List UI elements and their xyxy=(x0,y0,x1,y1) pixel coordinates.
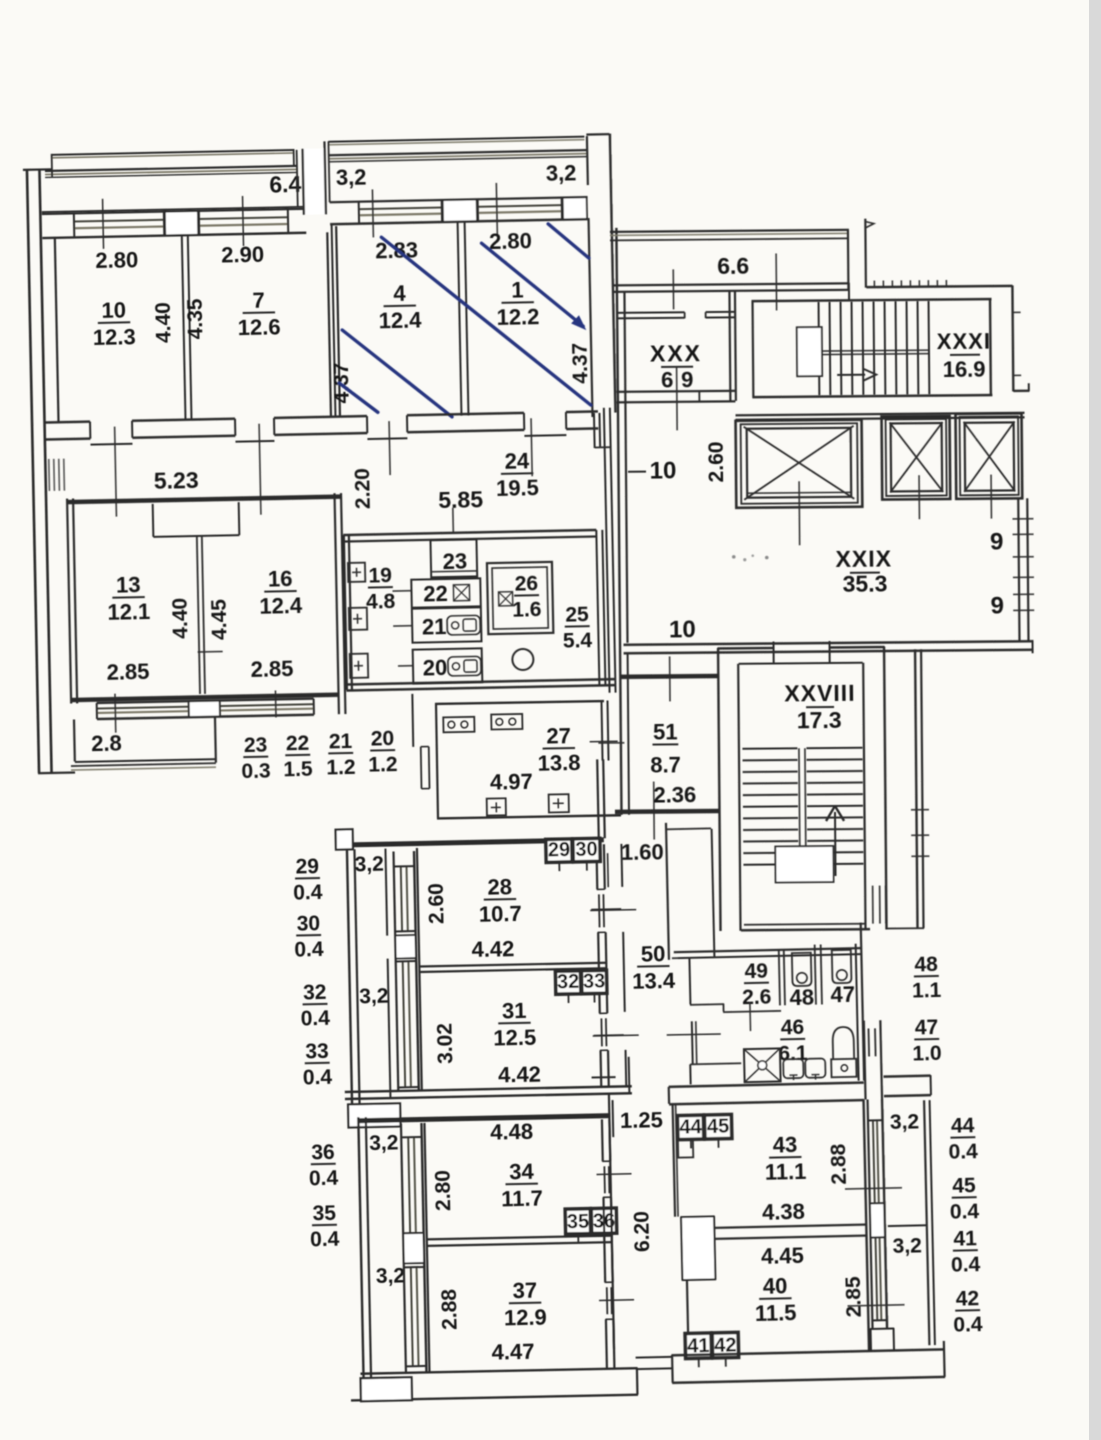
svg-text:3,2: 3,2 xyxy=(359,985,389,1009)
rooms 43/40 right wall xyxy=(864,1100,869,1351)
room 26 label xyxy=(514,594,539,596)
dim tick 2.90 room7 xyxy=(243,196,244,246)
room 26 box double border xyxy=(487,562,553,634)
room 46 label xyxy=(780,1038,805,1041)
dim tick under 5.85 xyxy=(452,508,455,533)
label 29/0.4 xyxy=(295,877,320,879)
room 16 right wall xyxy=(335,493,339,714)
hatched wall line to right corner xyxy=(866,286,1012,287)
stairwell XXVIII right walls xyxy=(863,663,865,930)
left balcony strip walls lower xyxy=(358,1117,363,1379)
svg-text:47: 47 xyxy=(830,982,855,1008)
svg-text:0.4: 0.4 xyxy=(950,1200,980,1224)
label 44/0.4 xyxy=(950,1136,975,1139)
elevator row top band xyxy=(736,413,1025,416)
wall between rooms 34 and 37 xyxy=(427,1236,613,1240)
wall between rooms 13 and 16 xyxy=(197,536,200,694)
left outer wall of building xyxy=(27,169,39,773)
balcony 6.6 bottom wall xyxy=(612,283,849,285)
room 51 label xyxy=(652,743,678,745)
svg-text:51: 51 xyxy=(653,719,678,744)
pier between balconies xyxy=(303,148,326,214)
svg-text:7: 7 xyxy=(252,288,265,313)
svg-text:1.1: 1.1 xyxy=(912,979,942,1003)
label 33/0.4 xyxy=(305,1062,330,1064)
svg-text:2.85: 2.85 xyxy=(250,656,293,682)
svg-text:27: 27 xyxy=(546,723,571,748)
svg-text:2.36: 2.36 xyxy=(653,782,696,807)
wall between rooms 43 and 40 xyxy=(714,1225,867,1228)
svg-text:2.88: 2.88 xyxy=(827,1143,851,1185)
door band to balcony 43 xyxy=(864,1021,866,1100)
label 30/0.4 xyxy=(296,934,321,936)
svg-text:3,2: 3,2 xyxy=(354,853,384,877)
label 41/0.4 xyxy=(953,1249,978,1252)
stair XXXI walk arrow xyxy=(837,374,865,376)
svg-text:48: 48 xyxy=(789,985,814,1011)
rooms 34/37 right wall with openings xyxy=(601,1119,604,1161)
svg-text:2.85: 2.85 xyxy=(106,659,149,685)
corridor 27 outline xyxy=(435,701,604,704)
stair XXVIII lower landing xyxy=(775,846,833,883)
label 36/0.4 xyxy=(311,1163,336,1165)
bottom wall rooms 13/16 xyxy=(72,695,339,700)
basin 2 room 46 xyxy=(805,1058,825,1077)
label 48/1.1 xyxy=(914,975,939,978)
svg-text:25: 25 xyxy=(565,603,589,626)
window ticks right wall 28 xyxy=(591,908,621,911)
svg-text:11.5: 11.5 xyxy=(755,1300,797,1326)
balcony rail 6.6 xyxy=(610,230,849,232)
svg-text:9: 9 xyxy=(990,592,1004,619)
dim tick below elevator 1 xyxy=(798,481,801,545)
room 43 left wall xyxy=(673,1105,675,1217)
svg-text:2.88: 2.88 xyxy=(438,1288,462,1330)
svg-text:4.42: 4.42 xyxy=(498,1062,541,1088)
black boxes 44 45 xyxy=(677,1115,704,1140)
svg-text:23: 23 xyxy=(244,734,268,757)
rooms 13/16 left wall xyxy=(67,499,71,704)
elevator shaft 2 xyxy=(882,416,951,500)
dim tick below room 4 door xyxy=(389,421,390,475)
scanner edge strip right xyxy=(1089,0,1101,1440)
svg-text:5.23: 5.23 xyxy=(154,467,199,494)
svg-text:3,2: 3,2 xyxy=(890,1110,920,1134)
stair XXXI middle rail xyxy=(822,349,929,352)
svg-text:10.7: 10.7 xyxy=(479,901,522,927)
dim tick room 51 xyxy=(669,656,671,701)
svg-text:11.1: 11.1 xyxy=(765,1159,807,1185)
svg-text:16.9: 16.9 xyxy=(943,357,986,382)
svg-text:26: 26 xyxy=(514,572,538,595)
svg-text:21: 21 xyxy=(329,730,353,753)
thick wall band above room 43 xyxy=(669,1083,864,1087)
dim tick below elevator 2 xyxy=(918,475,920,519)
svg-text:3,2: 3,2 xyxy=(892,1234,922,1258)
corridor 27 label xyxy=(543,747,575,750)
svg-text:2.20: 2.20 xyxy=(351,468,375,509)
bath block right wall xyxy=(856,944,859,1081)
dim tick 2.85 right xyxy=(274,690,277,717)
svg-text:50: 50 xyxy=(641,941,666,966)
balcony floor line left xyxy=(42,207,304,212)
door jamb tick near 1.60 xyxy=(607,853,610,887)
svg-text:1.25: 1.25 xyxy=(620,1107,663,1133)
room 25 label xyxy=(565,625,590,627)
svg-text:4.35: 4.35 xyxy=(184,298,208,340)
window band below balcony 6.4 xyxy=(42,209,306,214)
room 46 left wall xyxy=(691,1021,694,1064)
right corridor strip outer wall xyxy=(915,649,917,928)
svg-text:12.9: 12.9 xyxy=(504,1305,547,1331)
balcony notch above bottom wall xyxy=(870,1328,872,1350)
room 4 left wall xyxy=(332,224,336,416)
top wall of room 34 block xyxy=(358,1116,610,1121)
room 10 left wall xyxy=(55,238,59,422)
dim tick 6.6 right xyxy=(775,253,777,310)
svg-text:30: 30 xyxy=(297,912,321,935)
corridor 50 left wall upper segment xyxy=(597,759,599,838)
svg-text:6.6: 6.6 xyxy=(717,253,749,279)
double lines right of stair bottom xyxy=(872,886,874,924)
svg-text:28: 28 xyxy=(487,874,512,899)
svg-text:4.40: 4.40 xyxy=(169,598,193,639)
labels 23/0.3 22/1.5 21/1.2 20/1.2 xyxy=(243,756,268,758)
room XXX right wall xyxy=(728,291,731,401)
stair XXXI centre landing box xyxy=(797,327,822,376)
bathtub symbol room 21 xyxy=(447,615,480,635)
svg-text:12.1: 12.1 xyxy=(107,599,150,625)
room 40 left wall xyxy=(687,1280,689,1354)
svg-text:33: 33 xyxy=(305,1040,329,1063)
right outer corner wall xyxy=(1011,285,1014,391)
bottom outer wall left wing xyxy=(360,1368,637,1374)
svg-text:23: 23 xyxy=(442,549,467,574)
dim tick below 49 xyxy=(749,1002,752,1031)
corridor 50 label xyxy=(637,965,669,968)
label 32/0.4 xyxy=(303,1003,328,1005)
svg-text:2.80: 2.80 xyxy=(489,228,532,254)
svg-text:1.0: 1.0 xyxy=(912,1042,942,1066)
svg-text:4.97: 4.97 xyxy=(490,769,533,795)
dim tick left of 51 xyxy=(598,742,624,744)
blue pen stroke room 1 with arrowhead xyxy=(482,241,584,328)
svg-text:45: 45 xyxy=(707,1116,730,1138)
room 4 label xyxy=(384,305,416,308)
vent box 3 with + xyxy=(350,654,368,678)
thin wall line with flag top right xyxy=(864,219,867,288)
room 49 walls xyxy=(674,948,861,952)
svg-text:8.7: 8.7 xyxy=(650,752,681,777)
balcony divider 44-45 / 41-42 xyxy=(888,1224,927,1227)
hall right wall with 9-windows xyxy=(1018,498,1019,640)
junction lines between wings xyxy=(636,1356,672,1359)
closet notch between 13 and 16 xyxy=(152,504,155,537)
svg-text:29: 29 xyxy=(295,855,319,878)
plus box 1 corridor 27 xyxy=(487,798,506,815)
svg-text:2.60: 2.60 xyxy=(425,883,449,924)
top wall of room 28 block xyxy=(336,840,604,845)
room XXX top wall with door xyxy=(617,311,685,314)
shower tray room 46 xyxy=(744,1048,781,1082)
room 49 label xyxy=(744,982,769,985)
svg-text:1.2: 1.2 xyxy=(326,756,356,780)
window left of corridor 27 xyxy=(420,747,423,789)
elevator shaft 1 large xyxy=(736,420,863,508)
dim tick below elevator 3 xyxy=(990,475,992,519)
svg-text:12.6: 12.6 xyxy=(237,314,280,340)
svg-text:31: 31 xyxy=(502,998,527,1023)
label 47/1.0 xyxy=(914,1038,939,1041)
smudge dots xyxy=(732,555,736,559)
blue pen stroke room 4 corner xyxy=(339,382,378,413)
svg-text:2.6: 2.6 xyxy=(742,986,772,1010)
elevator shaft 3 xyxy=(956,413,1023,499)
blue pen stroke room 1 top right xyxy=(548,223,589,259)
right wing left wall lower part xyxy=(620,643,622,815)
svg-text:41: 41 xyxy=(953,1227,977,1251)
svg-text:2.8: 2.8 xyxy=(91,731,122,757)
svg-text:4.45: 4.45 xyxy=(208,599,232,641)
balcony strip right outer wall xyxy=(924,1100,929,1345)
svg-text:4.45: 4.45 xyxy=(761,1243,804,1269)
svg-text:19: 19 xyxy=(368,564,392,587)
svg-text:29: 29 xyxy=(548,839,571,861)
black boxes 29 30 xyxy=(546,839,572,863)
svg-text:49: 49 xyxy=(744,960,768,984)
bottom wall of rooms 10/7/4/1 with door openings xyxy=(45,420,90,423)
svg-text:5.85: 5.85 xyxy=(438,486,483,513)
svg-text:45: 45 xyxy=(952,1174,976,1198)
svg-text:35.3: 35.3 xyxy=(842,571,887,597)
svg-text:33: 33 xyxy=(583,970,606,992)
svg-text:21: 21 xyxy=(422,614,447,639)
fan symbol room 26 xyxy=(499,592,513,606)
top wall rooms 13/16 xyxy=(68,497,342,502)
svg-text:32: 32 xyxy=(303,981,327,1004)
svg-text:4.42: 4.42 xyxy=(471,936,514,962)
vent box 1 with + xyxy=(348,563,365,582)
blue pen stroke room 4 middle xyxy=(342,328,452,419)
glazing in wall openings 34/37 xyxy=(603,1166,606,1193)
rooms 34/37 left wall xyxy=(424,1123,429,1372)
dim cross on divider wall xyxy=(198,651,223,654)
bottom-left corner block xyxy=(361,1377,412,1401)
svg-text:20: 20 xyxy=(371,727,395,750)
label 42/0.4 xyxy=(955,1309,980,1312)
label 10 upper with dash xyxy=(628,471,646,473)
window band below balcony 3,2 xyxy=(330,197,588,202)
svg-text:1.6: 1.6 xyxy=(512,598,542,622)
svg-text:30: 30 xyxy=(575,838,598,860)
svg-text:16: 16 xyxy=(268,566,293,591)
svg-text:3.02: 3.02 xyxy=(433,1023,457,1064)
balcony rail top-left (6.4) xyxy=(52,150,294,155)
dim tick 2.85 left xyxy=(114,694,117,733)
svg-text:11.7: 11.7 xyxy=(501,1186,543,1212)
svg-text:4.38: 4.38 xyxy=(762,1199,805,1225)
glazing in wall openings 28/31 xyxy=(598,894,601,927)
svg-text:13: 13 xyxy=(116,572,141,597)
balcony rail top-right (3,2 / 3,2) xyxy=(328,137,584,142)
svg-text:47: 47 xyxy=(915,1016,939,1040)
cluster outer walls xyxy=(343,530,596,535)
dim tick through XXX xyxy=(676,367,679,430)
svg-text:32: 32 xyxy=(557,971,580,993)
label 35/0.4 xyxy=(312,1224,337,1226)
room 28 label xyxy=(484,898,516,901)
dim tick corridor 50 upper xyxy=(590,909,636,912)
svg-text:10: 10 xyxy=(650,457,677,484)
stair under-flight box left xyxy=(666,823,669,960)
svg-text:2.60: 2.60 xyxy=(705,441,728,482)
room 7 label xyxy=(243,311,275,314)
svg-text:22: 22 xyxy=(423,581,448,606)
dim tick 2.80 room10 xyxy=(103,199,104,249)
svg-text:2.90: 2.90 xyxy=(221,242,264,268)
stairwell XXVIII bottom wall xyxy=(744,924,866,925)
svg-text:19.5: 19.5 xyxy=(496,475,539,501)
wall between 49 and 48 xyxy=(779,949,780,1005)
svg-text:10: 10 xyxy=(669,616,696,643)
stair XXVIII up arrow xyxy=(834,812,837,876)
svg-text:40: 40 xyxy=(763,1273,788,1299)
svg-text:34: 34 xyxy=(509,1159,535,1185)
corridor 50 left wall lower part xyxy=(609,1093,614,1349)
room 34 label xyxy=(505,1183,537,1186)
top-left corner block xyxy=(336,829,353,849)
stair XXVIII centre stringer xyxy=(799,748,800,864)
room 40 label xyxy=(759,1297,791,1300)
window band below rooms 13/16 xyxy=(97,699,314,703)
svg-text:XXVIII: XXVIII xyxy=(784,680,855,707)
corridor 27 right wall ticks xyxy=(590,740,618,742)
room 20 box xyxy=(413,648,483,683)
rooms 28/31 right wall with openings xyxy=(595,844,598,889)
svg-text:4.37: 4.37 xyxy=(569,343,593,384)
right wing left wall xyxy=(616,228,620,643)
svg-text:44: 44 xyxy=(951,1114,975,1138)
washbasin room 47 xyxy=(832,950,852,983)
svg-text:1: 1 xyxy=(511,277,524,302)
label 45/0.4 xyxy=(952,1196,977,1199)
hatch marks on left wall xyxy=(48,459,51,491)
window ticks right wall 37 xyxy=(599,1299,634,1302)
svg-text:4.47: 4.47 xyxy=(491,1339,534,1365)
svg-text:4.8: 4.8 xyxy=(366,590,396,614)
svg-text:2.85: 2.85 xyxy=(842,1276,866,1318)
svg-text:3,2: 3,2 xyxy=(376,1264,406,1288)
ticks on right corridor strip xyxy=(911,809,929,811)
svg-text:13.8: 13.8 xyxy=(537,750,580,776)
room 23 box xyxy=(430,539,477,577)
stairwell XXXI box xyxy=(752,299,992,301)
svg-text:24: 24 xyxy=(504,448,530,474)
svg-text:35: 35 xyxy=(312,1202,336,1225)
room 51 top wall xyxy=(620,674,718,679)
balcony floor line right xyxy=(330,197,588,202)
black boxes 35 36 xyxy=(565,1209,590,1234)
svg-text:22: 22 xyxy=(286,732,310,755)
room 37 label xyxy=(509,1302,541,1305)
svg-text:37: 37 xyxy=(512,1278,537,1303)
window ticks right wall 34 xyxy=(597,1173,632,1176)
room 10 label xyxy=(98,321,130,324)
room 22 box xyxy=(411,578,481,607)
stairwell XXVIII outer left wall xyxy=(718,648,720,931)
room 51 bottom wall xyxy=(615,809,719,814)
svg-text:0.4: 0.4 xyxy=(309,1167,339,1191)
svg-text:0.4: 0.4 xyxy=(293,881,323,905)
svg-text:20: 20 xyxy=(423,655,448,680)
svg-text:0.4: 0.4 xyxy=(948,1140,978,1164)
thick wall band over balcony xyxy=(884,1076,931,1077)
vent box 2 with + xyxy=(349,608,367,630)
svg-text:0.4: 0.4 xyxy=(310,1228,340,1252)
svg-text:46: 46 xyxy=(781,1016,805,1040)
svg-text:5.4: 5.4 xyxy=(563,629,593,653)
corridor junction lines near thick band xyxy=(628,1057,631,1093)
window band left of rooms 34/37 xyxy=(401,1123,406,1372)
svg-text:4.48: 4.48 xyxy=(490,1119,533,1145)
hall bottom wall xyxy=(624,641,1034,645)
room 43 label xyxy=(769,1156,801,1159)
svg-text:4: 4 xyxy=(393,281,406,306)
toilet room 25 xyxy=(512,649,533,670)
svg-text:0.4: 0.4 xyxy=(951,1253,981,1277)
room 16 label xyxy=(264,590,296,593)
bathtub symbol room 20 xyxy=(448,656,481,676)
wall between rooms 28 and 31 xyxy=(419,963,606,967)
wall below XXX xyxy=(616,391,735,392)
room 1 label xyxy=(502,301,534,304)
svg-text:48: 48 xyxy=(914,953,938,977)
svg-text:43: 43 xyxy=(772,1132,797,1158)
svg-text:44: 44 xyxy=(679,1116,703,1138)
room 19 label xyxy=(368,586,393,588)
svg-text:12.4: 12.4 xyxy=(259,593,303,619)
svg-text:35: 35 xyxy=(567,1211,590,1233)
basin 1 room 46 xyxy=(783,1059,803,1078)
svg-text:3,2: 3,2 xyxy=(546,160,577,186)
black boxes 32 33 xyxy=(555,971,580,994)
svg-text:6.20: 6.20 xyxy=(630,1211,654,1252)
stair XXVIII treads xyxy=(742,747,797,749)
wall between room 7 and room 4 block xyxy=(327,232,331,416)
window marks in door band xyxy=(867,1028,870,1056)
svg-text:17.3: 17.3 xyxy=(797,707,842,733)
svg-text:36: 36 xyxy=(311,1141,335,1164)
window tick room 40 right xyxy=(848,1305,905,1306)
svg-text:2.80: 2.80 xyxy=(95,247,138,273)
svg-text:1.2: 1.2 xyxy=(368,753,398,777)
svg-text:13.4: 13.4 xyxy=(632,968,676,994)
dim tick 5.23 right xyxy=(259,424,261,515)
window ticks right wall 31 xyxy=(594,1034,624,1037)
svg-text:2.80: 2.80 xyxy=(431,1170,455,1211)
black boxes 41 42 xyxy=(685,1333,712,1359)
corridor 50 vent wall segments xyxy=(620,844,623,887)
room 21 box xyxy=(412,607,482,642)
svg-text:4.40: 4.40 xyxy=(152,302,176,343)
svg-text:10: 10 xyxy=(101,297,126,322)
svg-text:3,2: 3,2 xyxy=(369,1131,399,1155)
dim tick corridor 50 lower xyxy=(593,1034,639,1037)
window tick room 43 right xyxy=(845,1188,902,1189)
svg-text:3,2: 3,2 xyxy=(336,165,367,191)
wall left of corridor 27 to cluster xyxy=(411,694,414,747)
room 1 right wall and junction pier xyxy=(586,136,589,185)
